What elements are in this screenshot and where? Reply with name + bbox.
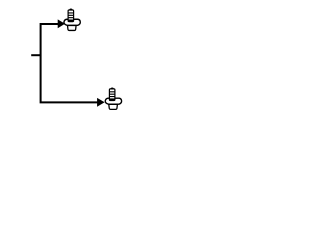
- base skirt: [109, 104, 118, 109]
- thread lower band: [109, 98, 115, 100]
- terminal nub: [70, 9, 72, 11]
- wire: main L-shaped run from top plug feed down and across to bottom plug feed: [41, 24, 98, 102]
- threaded shaft: [68, 10, 74, 22]
- spark plug P1 (top): [64, 9, 80, 30]
- thread lower band: [68, 19, 74, 21]
- nut/hex body: [105, 98, 121, 104]
- wire: left stub tick on vertical bus: [31, 54, 41, 56]
- spark plug P2 (bottom): [105, 88, 121, 109]
- arrowhead to bottom spark plug: [97, 98, 104, 106]
- nut/hex body: [64, 19, 80, 25]
- arrowhead to top spark plug: [58, 20, 64, 28]
- terminal nub: [111, 88, 113, 90]
- thread rungs: [109, 92, 115, 97]
- threaded shaft: [109, 89, 115, 101]
- thread rungs: [68, 13, 74, 18]
- base skirt: [68, 26, 77, 31]
